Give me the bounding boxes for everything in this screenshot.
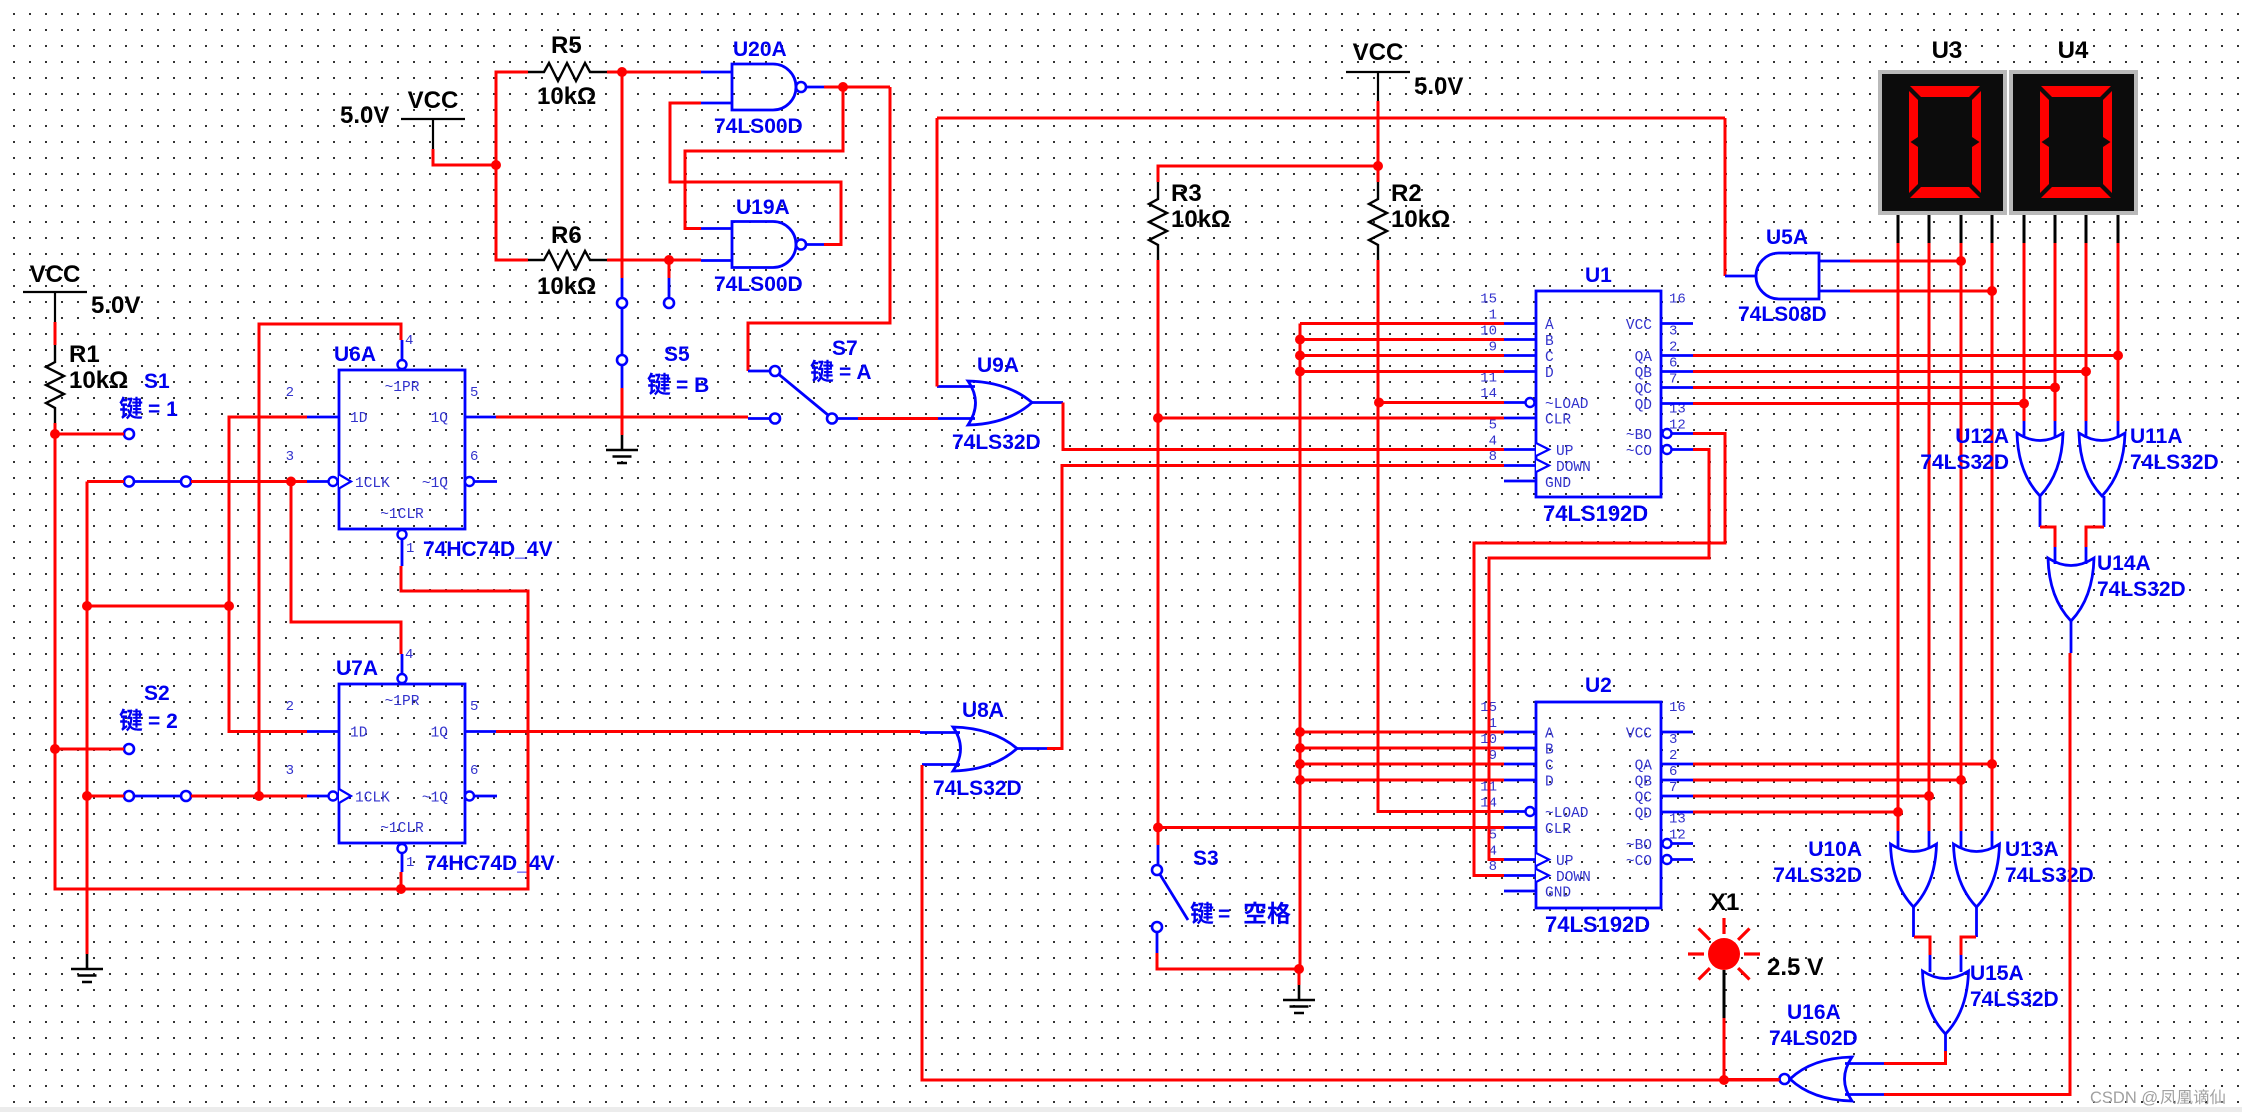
wire bus to U2 input: [1300, 747, 1504, 750]
junction R2/U1 ~LOAD: [1374, 398, 1384, 408]
svg-text:VCC: VCC: [30, 261, 81, 288]
wire U1 left pin stub: [1504, 354, 1536, 357]
NAND gate U19A 74LS00D: [732, 222, 806, 268]
svg-text:3: 3: [1669, 732, 1677, 748]
wire bus to U1 input: [1300, 354, 1504, 357]
wire U14A input stub 1: [2054, 547, 2057, 564]
wire bus to U1 input: [1300, 338, 1504, 341]
wire U14A input stub 2: [2085, 547, 2088, 564]
S5 contact bottom: [617, 355, 627, 365]
S2 contact lower: [124, 791, 134, 801]
junction VCC/R2/R3: [1373, 161, 1383, 171]
wire U19A input stub 2: [701, 259, 732, 262]
wire S5 blade (closed): [621, 308, 624, 355]
wire U5A input stub 2: [1819, 290, 1850, 293]
wire U8A input stub 1: [920, 731, 960, 734]
wire U7A ~1PR stub: [401, 654, 404, 674]
svg-text:= B: = B: [676, 374, 709, 397]
junction U5A in1: [1956, 256, 1966, 266]
counter U2 74LS192D: [1526, 702, 1672, 908]
wire U15A output stub: [1944, 1034, 1947, 1051]
svg-text:U14A: U14A: [2097, 552, 2151, 575]
wire ground net vertical: [86, 482, 89, 955]
wire U7A ~1CLR stub: [401, 853, 404, 872]
wire U5A output stub: [1725, 275, 1756, 278]
wire S3 to ground: [1157, 953, 1299, 969]
wire S1 common to U7A ~1PR: [291, 482, 401, 655]
wire U1 UP stub: [1504, 448, 1536, 451]
svg-text:U7A: U7A: [336, 657, 378, 680]
wire bus to U2 input: [1300, 763, 1504, 766]
junction S3/bus/ground: [1294, 964, 1304, 974]
ground (below S5): [606, 435, 638, 463]
wire U20A input stub 1: [701, 71, 732, 74]
wire U9A input stub 1: [937, 385, 975, 388]
wire S5 to ground: [621, 388, 624, 435]
svg-text:VCC: VCC: [1353, 39, 1404, 66]
wire U19A output stub: [806, 243, 824, 246]
svg-text:U5A: U5A: [1766, 226, 1808, 249]
svg-text:D: D: [1545, 775, 1554, 791]
wire U1 right pin stub: [1661, 322, 1693, 325]
svg-text:2: 2: [286, 699, 294, 715]
wire R6 to U19A input B: [607, 259, 701, 262]
wire U9A input stub 2: [938, 417, 975, 420]
wire feedback U19A out to U20A in: [670, 103, 841, 245]
S7 contact lower-left: [770, 414, 780, 424]
wire U1 left pin stub: [1504, 417, 1536, 420]
wire U2 DOWN stub: [1504, 874, 1536, 877]
svg-text:1D: 1D: [350, 726, 367, 742]
svg-text:A: A: [1545, 727, 1554, 743]
wire U16A output net (bottom long): [922, 765, 1780, 1080]
NOR gate U16A 74LS02D (mirrored): [1780, 1057, 1853, 1101]
svg-text:16: 16: [1669, 700, 1686, 716]
svg-text:UP: UP: [1556, 444, 1573, 460]
resistor R3 10k: [1149, 180, 1230, 260]
wire U2 QA to U3: [1693, 763, 1992, 766]
svg-text:2: 2: [286, 385, 294, 401]
wire pin column blue end: [2054, 421, 2057, 438]
label 键 = 空格: [1190, 902, 1213, 925]
svg-text:~LOAD: ~LOAD: [1545, 806, 1589, 822]
wire pin column blue end: [1897, 831, 1900, 847]
junction X1/U16A output: [1719, 1075, 1729, 1085]
junction R6/S5 right contact: [664, 255, 674, 265]
svg-text:QA: QA: [1635, 350, 1653, 366]
svg-text:16: 16: [1669, 292, 1686, 308]
wire U1 right pin stub: [1661, 402, 1693, 405]
wire S5 left contact stub: [621, 278, 624, 298]
svg-text:= 2: = 2: [148, 710, 178, 733]
wire U15A out to U16A: [1884, 1051, 1946, 1064]
svg-text:74LS02D: 74LS02D: [1769, 1027, 1858, 1050]
svg-text:74LS00D: 74LS00D: [714, 115, 803, 138]
svg-text:~1PR: ~1PR: [385, 694, 420, 710]
svg-text:S3: S3: [1193, 847, 1219, 870]
svg-text:15: 15: [1480, 292, 1497, 308]
svg-text:74LS00D: 74LS00D: [714, 273, 803, 296]
wire S2 lower contact: [87, 795, 124, 798]
wire U14A out to U16A: [1884, 653, 2070, 1095]
svg-text:U19A: U19A: [736, 196, 790, 219]
wire pin column blue end: [2023, 421, 2026, 438]
wire U6A 1Q stub: [465, 416, 496, 419]
wire X1 lead (black): [1723, 970, 1726, 1018]
svg-text:74LS32D: 74LS32D: [2130, 451, 2219, 474]
wire U12A out elbow: [2040, 527, 2055, 547]
wire U6A ~1PR stub: [401, 340, 404, 360]
wire U1 QA to U4: [1693, 354, 2118, 357]
flip-flop U7A 74HC74D_4V: [329, 674, 475, 853]
OR gate U14A 74LS32D (vertical): [2048, 558, 2094, 621]
svg-text:6: 6: [470, 763, 478, 779]
wire U3 pin column x=1961: [1960, 243, 1963, 831]
S2 contact common: [181, 791, 191, 801]
wire U8A out to U1 DOWN: [1047, 466, 1504, 749]
wire U1 right pin stub: [1661, 386, 1693, 389]
svg-text:UP: UP: [1556, 854, 1573, 870]
svg-text:U1: U1: [1585, 264, 1612, 287]
wire U6A ~1Q stub: [474, 480, 497, 483]
svg-text:~1Q: ~1Q: [422, 791, 448, 807]
junction R1 net/S2: [50, 744, 60, 754]
wire bus to U2 input: [1300, 731, 1504, 734]
wire R3 net vertical: [1157, 260, 1160, 845]
wire U4 pin column x=2118: [2117, 243, 2120, 421]
wire S1 lower contact: [87, 480, 124, 483]
svg-text:4: 4: [405, 333, 413, 349]
wire to R5: [496, 72, 528, 165]
junction 1D branch: [224, 601, 234, 611]
ground (below S3): [1283, 985, 1315, 1013]
S7 contact upper-left: [770, 366, 780, 376]
svg-text:GND: GND: [1545, 886, 1571, 902]
wire U2 left pin stub: [1504, 826, 1536, 829]
svg-text:C: C: [1545, 350, 1554, 366]
wire U6A ~1CLR stub: [401, 539, 404, 566]
wire U3 pin column x=1992: [1991, 243, 1994, 831]
svg-text:3: 3: [1669, 324, 1677, 340]
svg-text:~CO: ~CO: [1626, 444, 1652, 460]
svg-text:DOWN: DOWN: [1556, 460, 1591, 476]
svg-text:13: 13: [1669, 812, 1686, 828]
7-segment display U3 showing 0: [1878, 70, 2007, 215]
S1 contact lower: [124, 477, 134, 487]
svg-text:5.0V: 5.0V: [340, 102, 389, 129]
wire to ground: [1298, 969, 1301, 985]
wire U2 UP stub: [1504, 858, 1536, 861]
svg-text:10kΩ: 10kΩ: [537, 273, 596, 300]
wire S7 lower-left stub: [748, 417, 769, 420]
wire U6A 1Q to S7: [496, 416, 748, 419]
svg-text:S2: S2: [144, 682, 170, 705]
wire R6 node down to S5 right contact: [668, 260, 671, 278]
svg-text:10kΩ: 10kΩ: [1391, 206, 1450, 233]
wire S7 upper-left stub: [748, 370, 769, 373]
junction R5/S5 column: [617, 67, 627, 77]
junction U20A output feedback: [838, 82, 848, 92]
wire S1 blade: [135, 480, 181, 483]
svg-text:A: A: [1545, 318, 1554, 334]
svg-text:10kΩ: 10kΩ: [537, 83, 596, 110]
wire to U6A 1D: [229, 417, 307, 606]
svg-text:QB: QB: [1635, 775, 1653, 791]
OR gate U11A 74LS32D (vertical): [2079, 433, 2125, 496]
wire R1 bottom: [54, 423, 57, 434]
wire bus to U1 input: [1300, 370, 1504, 373]
wire U1 ~BO stub: [1672, 432, 1693, 435]
power VCC (left) 5.0V: [23, 261, 87, 322]
svg-text:U15A: U15A: [1970, 962, 2024, 985]
S3 contact lower: [1152, 922, 1162, 932]
wire U2 left pin stub: [1504, 779, 1536, 782]
wire U1 right pin stub: [1661, 370, 1693, 373]
svg-text:1CLK: 1CLK: [355, 476, 390, 492]
wire S5 lower stub: [621, 365, 624, 388]
junction QB/U4 pin: [2081, 367, 2091, 377]
svg-text:74HC74D_4V: 74HC74D_4V: [423, 538, 553, 561]
wire R5 node down to S5: [621, 72, 624, 278]
resistor R6 10k: [528, 222, 607, 300]
svg-text:74LS32D: 74LS32D: [933, 777, 1022, 800]
svg-text:74LS32D: 74LS32D: [2005, 864, 2094, 887]
svg-text:= 1: = 1: [148, 398, 178, 421]
wire VCC to junction: [433, 149, 496, 165]
wire pin column blue end: [2117, 421, 2120, 438]
wire U7A ~1Q stub: [474, 795, 497, 798]
svg-text:74LS192D: 74LS192D: [1545, 912, 1650, 937]
label 键 = B: [647, 373, 670, 396]
wire U8A output stub: [1017, 747, 1047, 750]
svg-text:74LS32D: 74LS32D: [952, 431, 1041, 454]
svg-text:D: D: [1545, 366, 1554, 382]
OR gate U13A 74LS32D (vertical): [1954, 844, 2000, 907]
wire U10A output stub: [1912, 905, 1915, 937]
junction S2 common/U6A ~1PR: [254, 791, 264, 801]
S7 contact right: [827, 414, 837, 424]
resistor R1 10k: [46, 341, 128, 423]
wire S1 common to U6A CLK: [191, 480, 307, 483]
svg-text:~1CLR: ~1CLR: [380, 821, 424, 837]
svg-text:U13A: U13A: [2005, 838, 2059, 861]
svg-text:12: 12: [1669, 828, 1686, 844]
wire to S2 upper contact: [55, 748, 124, 751]
OR gate U8A 74LS32D: [953, 727, 1017, 771]
svg-text:5.0V: 5.0V: [1414, 73, 1463, 100]
power VCC (top middle) 5.0V: [401, 87, 465, 149]
junction U2 QD/U3 pin: [1893, 807, 1903, 817]
wire pin column blue end: [2085, 421, 2088, 438]
svg-text:2: 2: [1669, 748, 1677, 764]
wire R2 net to U2 ~LOAD: [1378, 260, 1504, 812]
label 键 = 1: [119, 397, 142, 420]
svg-text:74LS192D: 74LS192D: [1543, 501, 1648, 526]
svg-text:S1: S1: [144, 370, 170, 393]
S5 contact top-left: [617, 298, 627, 308]
S3 contact upper: [1152, 865, 1162, 875]
svg-text:1CLK: 1CLK: [355, 791, 390, 807]
svg-text:8: 8: [1489, 449, 1497, 465]
svg-text:14: 14: [1480, 386, 1497, 402]
svg-text:9: 9: [1489, 340, 1497, 356]
svg-text:74LS32D: 74LS32D: [2097, 578, 2186, 601]
wire U9A out to U1 UP: [1063, 403, 1504, 450]
svg-text:10kΩ: 10kΩ: [69, 367, 128, 394]
svg-text:U20A: U20A: [733, 38, 787, 61]
svg-text:QB: QB: [1635, 366, 1653, 382]
wire U7A 1D stub: [307, 730, 339, 733]
wire U13A out elbow: [1961, 937, 1976, 955]
junction VCC/R5/R6 node: [491, 160, 501, 170]
svg-text:U3: U3: [1932, 37, 1963, 64]
display U4 pins: [2024, 215, 2118, 243]
svg-text:74LS32D: 74LS32D: [1773, 864, 1862, 887]
svg-text:U8A: U8A: [962, 699, 1004, 722]
svg-text:1Q: 1Q: [431, 726, 449, 742]
junction R3/CLR1: [1153, 413, 1163, 423]
wire S2 blade: [135, 795, 181, 798]
label 键 = 2: [119, 709, 142, 732]
svg-text:CLR: CLR: [1545, 413, 1571, 429]
wire U1 QD to U4: [1693, 402, 2024, 405]
svg-text:S5: S5: [664, 343, 690, 366]
svg-text:R3: R3: [1171, 180, 1202, 207]
ground (bottom left): [71, 954, 103, 982]
wire U16A output: [1724, 1078, 1780, 1081]
svg-text:VCC: VCC: [1626, 318, 1652, 334]
wire U2 ~LOAD stub: [1504, 810, 1525, 813]
AND gate U5A 74LS08D (mirrored): [1756, 253, 1819, 299]
wire U2 ~BO stub: [1672, 842, 1693, 845]
wire ABCD bus vertical: [1299, 324, 1302, 970]
svg-text:5: 5: [470, 699, 478, 715]
junction U7A ~1CLR: [396, 884, 406, 894]
wire to U1 CLR: [1158, 417, 1504, 420]
svg-text:74LS08D: 74LS08D: [1738, 303, 1827, 326]
junction R3/CLR2: [1153, 823, 1163, 833]
junction QD/U4 pin: [2019, 399, 2029, 409]
svg-text:C: C: [1545, 759, 1554, 775]
wire S7 blade: [779, 375, 828, 416]
wire U15A input stub 1: [1929, 955, 1932, 972]
svg-text:7: 7: [1669, 780, 1677, 796]
svg-text:~CO: ~CO: [1626, 854, 1652, 870]
wire U5A in2 to U3 pin column: [1850, 290, 1992, 293]
wire S2 common to U6A ~1PR: [259, 324, 401, 796]
junction U2 QC/U3 pin: [1924, 791, 1934, 801]
wire U3 pin column x=1898: [1897, 243, 1900, 831]
svg-text:10kΩ: 10kΩ: [1171, 206, 1230, 233]
wire S3 blade (open): [1160, 875, 1188, 921]
svg-text:10: 10: [1480, 324, 1497, 340]
svg-text:6: 6: [1669, 764, 1677, 780]
S1 contact upper: [124, 429, 134, 439]
junction S1 common/U7A ~1PR: [286, 477, 296, 487]
svg-text:X1: X1: [1710, 889, 1739, 916]
svg-text:4: 4: [1489, 434, 1497, 450]
svg-text:S7: S7: [832, 337, 858, 360]
wire VCC down: [1377, 101, 1380, 166]
wire U20A output: [824, 86, 890, 89]
svg-text:1: 1: [406, 541, 414, 557]
wire U13A output stub: [1975, 905, 1978, 937]
wire pin column blue end: [1960, 831, 1963, 847]
wire U20A output stub: [806, 86, 824, 89]
svg-text:U6A: U6A: [334, 343, 376, 366]
svg-text:1D: 1D: [350, 411, 367, 427]
power VCC (top right) 5.0V: [1346, 39, 1410, 102]
wire U9A output stub: [1032, 401, 1063, 404]
svg-text:QC: QC: [1635, 382, 1653, 398]
wire U2 left pin stub: [1504, 747, 1536, 750]
wire U16A input stub 1: [1845, 1062, 1884, 1065]
svg-text:R5: R5: [551, 32, 582, 59]
wire S7 to U9A: [858, 417, 938, 420]
lamp X1 2.5V: [1688, 918, 1760, 980]
junction R1/S1: [50, 429, 60, 439]
svg-text:QD: QD: [1635, 398, 1652, 414]
label 键 = A: [810, 360, 833, 383]
svg-text:1Q: 1Q: [431, 411, 449, 427]
wire U1 left pin stub: [1504, 322, 1536, 325]
wire to U7A 1D: [229, 606, 307, 732]
wire U1 DOWN stub: [1504, 464, 1536, 467]
svg-text:U10A: U10A: [1808, 838, 1862, 861]
counter U1 74LS192D: [1526, 291, 1672, 497]
svg-text:5: 5: [470, 385, 478, 401]
svg-text:~1PR: ~1PR: [385, 380, 420, 396]
wire U7A CLK stub: [307, 795, 329, 798]
display U3 pins: [1898, 215, 1992, 243]
svg-text:2: 2: [1669, 340, 1677, 356]
svg-text:CLR: CLR: [1545, 822, 1571, 838]
junction ABCD bus: [1295, 743, 1305, 753]
wire CLR net (R1 to U6A/U7A ~1CLR): [55, 566, 528, 889]
junction S2 lower: [82, 791, 92, 801]
OR gate U15A 74LS32D (vertical): [1923, 971, 1969, 1034]
wire U16A input stub 2: [1845, 1093, 1884, 1096]
svg-text:74LS32D: 74LS32D: [1920, 451, 2009, 474]
wire U20A input stub 2: [701, 102, 732, 105]
wire to R3: [1158, 166, 1378, 182]
wire S3 lower stub: [1156, 932, 1159, 953]
S2 contact upper: [124, 744, 134, 754]
svg-text:QD: QD: [1635, 807, 1652, 823]
wire S7 right stub: [837, 417, 858, 420]
svg-text:U16A: U16A: [1787, 1001, 1841, 1024]
wire U5A out to U9A in (vertical): [936, 118, 939, 387]
wire S2 common to U7A CLK: [191, 795, 307, 798]
svg-text:QC: QC: [1635, 791, 1653, 807]
wire U6A CLK stub: [307, 480, 329, 483]
wire U4 pin column x=2024: [2023, 243, 2026, 421]
wire U2 right pin stub: [1661, 811, 1693, 814]
junction U2 QB/U3 pin: [1956, 775, 1966, 785]
wire VCC to R1: [54, 322, 57, 345]
wire U2 right pin stub: [1661, 763, 1693, 766]
wire U1 left pin stub: [1504, 338, 1536, 341]
svg-text:R1: R1: [69, 341, 100, 368]
wire to R6: [496, 165, 528, 260]
svg-text:1: 1: [1489, 308, 1497, 324]
wire U8A input stub 2: [922, 763, 960, 766]
svg-text:VCC: VCC: [1626, 727, 1652, 743]
wire R1 node to S1: [55, 433, 124, 436]
wire to U7A ~1CLR: [400, 872, 403, 889]
wire U1 ~CO stub: [1672, 448, 1693, 451]
svg-text:U12A: U12A: [1955, 425, 2009, 448]
